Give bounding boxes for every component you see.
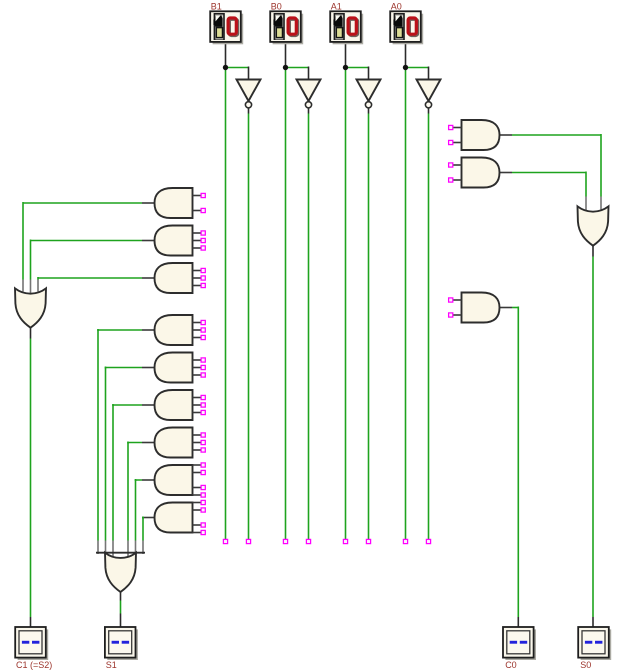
wire AND8 input stub 3 — [193, 487, 202, 489]
svg-text:S0: S0 — [580, 660, 591, 670]
wire OR3 input stub 2 — [585, 197, 587, 211]
wire B1 vertical run — [225, 67, 227, 540]
pin end of B1 run — [223, 539, 227, 543]
pin AND2 input 2 — [201, 238, 205, 242]
pin end of B0 run — [283, 539, 287, 543]
wire AND11 output stub — [500, 172, 513, 174]
node A1 junction — [343, 65, 348, 70]
and-gate AND5 — [155, 353, 193, 383]
wire AND5 output stub — [142, 367, 156, 369]
LED output C0 — [503, 627, 536, 660]
inverter U2 (B0&#773;) — [297, 80, 321, 108]
wire C1 LED input stub — [30, 617, 32, 627]
and-gate AND11 — [462, 158, 500, 188]
wire AND3 output to OR1 — [38, 277, 142, 279]
wire AND10 output to OR3 — [512, 134, 601, 136]
svg-text:S1: S1 — [106, 660, 117, 670]
wire AND11 output to OR3 — [512, 172, 586, 174]
wire B0 box to junction — [285, 42, 287, 68]
pin AND10 input 1 — [449, 125, 453, 129]
wire B0&#773; vertical run — [308, 114, 310, 540]
wire inverter U1 output stub — [248, 108, 250, 114]
pin AND7 input 2 — [201, 440, 205, 444]
wire AND11 input stub 2 — [453, 179, 462, 181]
wire AND12 output stub — [500, 307, 513, 309]
pin AND8 input 3 — [201, 485, 205, 489]
pin AND6 input 1 — [201, 395, 205, 399]
input switch B0 — [270, 11, 303, 44]
wire AND3 input stub 1 — [193, 270, 202, 272]
wire A1 vertical run — [345, 67, 347, 540]
wire AND3 output stub — [142, 277, 156, 279]
wire AND4 output stub — [142, 329, 156, 331]
wire AND2 input stub 2 — [193, 240, 202, 242]
wire inverter U3 input stub — [368, 67, 370, 81]
input switch A1 — [330, 11, 363, 44]
pin end of B1&#773; run — [246, 539, 250, 543]
wire AND2 input stub 3 — [193, 247, 202, 249]
pin AND8 input 2 — [201, 470, 205, 474]
pin AND4 input 1 — [201, 320, 205, 324]
pin AND6 input 3 — [201, 410, 205, 414]
pin AND7 input 3 — [201, 448, 205, 452]
and-gate AND2 — [155, 226, 193, 256]
wire AND9 input stub 2 — [193, 509, 202, 511]
pin AND12 input 2 — [449, 313, 453, 317]
pin AND12 input 1 — [449, 298, 453, 302]
wire OR2 to S1 LED — [120, 601, 122, 614]
wire B1 junction to inverter — [226, 67, 249, 69]
wire AND4 input stub 3 — [193, 337, 202, 339]
wire OR2 input stub 1 — [97, 541, 99, 555]
wire AND4 output to OR2 — [98, 330, 142, 331]
wire OR1 input stub 1 — [22, 280, 24, 292]
or-gate OR1 (C1) — [15, 288, 46, 327]
pin AND9 input 4 — [201, 530, 205, 534]
and-gate AND3 — [155, 263, 193, 293]
wire AND5 input stub 3 — [193, 374, 202, 376]
wire AND7 output to OR2 — [128, 443, 142, 444]
wire AND8 output to OR2 — [136, 480, 143, 481]
wire AND11 input stub 1 — [453, 164, 462, 166]
and-gate AND10 — [462, 120, 500, 150]
pin end of A1 run — [343, 539, 347, 543]
input switch A0 — [390, 11, 423, 44]
wire OR1 output stub — [30, 327, 32, 338]
wire OR1 input stub 2 — [30, 280, 32, 294]
pin end of B0&#773; run — [306, 539, 310, 543]
wire AND2 output to OR1 — [31, 240, 143, 242]
wire AND8 output stub — [142, 479, 156, 481]
pin AND1 input 2 — [201, 208, 205, 212]
wire OR2 input stub 4 — [127, 541, 129, 559]
wire AND1 input stub 2 — [193, 210, 202, 212]
wire AND8 input stub 1 — [193, 464, 202, 466]
wire AND10 output stub — [500, 134, 513, 136]
wire AND7 output stub — [142, 442, 156, 444]
and-gate AND9 — [155, 503, 193, 533]
wire AND3 input stub 3 — [193, 285, 202, 287]
wire AND2 output stub — [142, 240, 156, 242]
wire AND9 input stub 3 — [193, 524, 202, 526]
node A0 junction — [403, 65, 408, 70]
wire inverter U1 input stub — [248, 67, 250, 81]
pin AND4 input 3 — [201, 335, 205, 339]
wire AND8 input stub 4 — [193, 494, 202, 496]
pin AND5 input 3 — [201, 373, 205, 377]
wire OR3 to S0 LED — [592, 257, 594, 618]
pin end of A0&#773; run — [426, 539, 430, 543]
wire AND1 output stub — [142, 202, 156, 204]
wire OR3 output stub — [592, 245, 594, 256]
wire AND2 input stub 1 — [193, 232, 202, 234]
wire AND5 input stub 2 — [193, 367, 202, 369]
wire S0 LED input stub — [592, 617, 594, 627]
or-gate OR2 (S1) wing line — [96, 552, 145, 554]
or-gate OR2 (S1) — [105, 553, 136, 592]
pin AND2 input 1 — [201, 231, 205, 235]
and-gate AND1 — [155, 188, 193, 218]
wire AND9 output to OR2 — [142, 518, 143, 519]
wire AND6 output to OR2 — [113, 405, 142, 406]
wire A0 vertical run — [405, 67, 407, 540]
and-gate AND7 — [155, 428, 193, 458]
and-gate AND4 — [155, 315, 193, 345]
pin AND11 input 2 — [449, 178, 453, 182]
node B1 junction — [223, 65, 228, 70]
wire A1&#773; vertical run — [368, 114, 370, 540]
wire OR2 input stub 3 — [112, 541, 114, 559]
LED output S0 — [578, 627, 611, 660]
wire S1 LED input stub — [120, 614, 122, 628]
LED output S1 — [105, 627, 138, 660]
pin AND6 input 2 — [201, 403, 205, 407]
wire AND5 input stub 1 — [193, 359, 202, 361]
wire OR3 input stub 1 — [600, 197, 602, 210]
wire AND7 input stub 3 — [193, 449, 202, 451]
pin AND9 input 1 — [201, 500, 205, 504]
pin AND3 input 2 — [201, 276, 205, 280]
wire OR1 input stub 3 — [37, 280, 39, 292]
pin AND5 input 2 — [201, 365, 205, 369]
svg-text:C0: C0 — [505, 660, 517, 670]
pin AND1 input 1 — [201, 193, 205, 197]
pin end of A1&#773; run — [366, 539, 370, 543]
or-gate OR3 (S0) — [578, 206, 609, 245]
wire AND1 input stub 1 — [193, 195, 202, 197]
wire AND1 output to OR1 — [23, 202, 142, 204]
wire inverter U4 output stub — [428, 108, 430, 114]
wire OR2 input stub 6 — [142, 541, 144, 555]
input switch B1 — [210, 11, 243, 44]
svg-text:A0: A0 — [391, 1, 402, 11]
pin AND8 input 4 — [201, 493, 205, 497]
pin AND9 input 3 — [201, 523, 205, 527]
wire AND10 input stub 2 — [453, 142, 462, 144]
wire inverter U2 output stub — [308, 108, 310, 114]
wire AND12 input stub 1 — [453, 299, 462, 301]
inverter U3 (A1&#773;) — [357, 80, 381, 108]
pin AND4 input 2 — [201, 328, 205, 332]
wire AND6 output stub — [142, 404, 156, 406]
wire A0 box to junction — [405, 42, 407, 68]
svg-text:A1: A1 — [331, 1, 342, 11]
wire OR1 to C1 LED — [30, 339, 32, 618]
wire A0 junction to inverter — [406, 67, 429, 69]
and-gate AND12 — [462, 293, 500, 323]
wire AND4 input stub 2 — [193, 329, 202, 331]
wire AND5 output to OR2 — [106, 368, 143, 369]
and-gate AND6 — [155, 390, 193, 420]
wire AND4 input stub 1 — [193, 322, 202, 324]
wire AND8 input stub 2 — [193, 472, 202, 474]
svg-text:C1 (=S2): C1 (=S2) — [16, 660, 52, 670]
pin AND8 input 1 — [201, 463, 205, 467]
wire OR2 output stub — [120, 592, 122, 601]
inverter U4 (A0&#773;) — [417, 80, 441, 108]
pin AND2 input 3 — [201, 246, 205, 250]
pin AND7 input 1 — [201, 433, 205, 437]
and-gate AND8 — [155, 465, 193, 495]
pin AND11 input 1 — [449, 163, 453, 167]
wire AND12 input stub 2 — [453, 314, 462, 316]
svg-text:B1: B1 — [211, 1, 222, 11]
wire OR2 input stub 2 — [105, 541, 107, 555]
pin AND3 input 1 — [201, 268, 205, 272]
wire B1&#773; vertical run — [248, 114, 250, 540]
inverter U1 (B1&#773;) — [237, 80, 261, 108]
wire AND9 input stub 1 — [193, 502, 202, 504]
wire C0 LED input stub — [517, 617, 519, 627]
pin AND3 input 3 — [201, 283, 205, 287]
wire AND6 input stub 1 — [193, 397, 202, 399]
wire inverter U4 input stub — [428, 67, 430, 81]
wire B0 junction to inverter — [286, 67, 309, 69]
LED output C1 (=S2) — [15, 627, 48, 660]
wire A1 box to junction — [345, 42, 347, 68]
pin AND10 input 2 — [449, 140, 453, 144]
wire AND7 input stub 2 — [193, 442, 202, 444]
svg-text:B0: B0 — [271, 1, 282, 11]
node B0 junction — [283, 65, 288, 70]
wire AND10 input stub 1 — [453, 127, 462, 129]
wire inverter U3 output stub — [368, 108, 370, 114]
pin end of A0 run — [403, 539, 407, 543]
wire AND3 input stub 2 — [193, 277, 202, 279]
wire B1 box to junction — [225, 42, 227, 68]
wire AND9 output stub — [142, 517, 156, 519]
wire inverter U2 input stub — [308, 67, 310, 81]
wire A0&#773; vertical run — [428, 114, 430, 540]
wire AND12 output to C0 LED — [512, 307, 518, 309]
wire B0 vertical run — [285, 67, 287, 540]
wire AND7 input stub 1 — [193, 434, 202, 436]
wire AND6 input stub 3 — [193, 412, 202, 414]
wire OR2 input stub 5 — [135, 541, 137, 555]
pin AND5 input 1 — [201, 358, 205, 362]
pin AND9 input 2 — [201, 508, 205, 512]
wire AND6 input stub 2 — [193, 404, 202, 406]
wire AND9 input stub 4 — [193, 532, 202, 534]
wire A1 junction to inverter — [346, 67, 369, 69]
